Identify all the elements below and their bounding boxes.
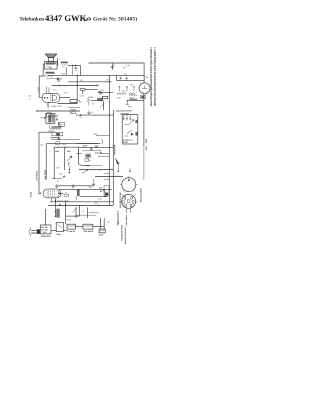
svg-text:ωω: ωω — [52, 114, 56, 117]
svg-text:Netz 50∼: Netz 50∼ — [42, 235, 52, 238]
switch with arrow — [113, 145, 131, 172]
svg-text:±12±0,5mA 6,3V∼: ±12±0,5mA 6,3V∼ — [116, 110, 134, 113]
vertical bus x77 — [76, 75, 78, 103]
node — [59, 85, 60, 86]
switch contacts — [78, 100, 81, 103]
vertical wire x46 — [45, 143, 47, 179]
resistor (zigzag) — [87, 97, 89, 106]
box with Rat/Wd labels — [54, 146, 82, 179]
tube (rectifier oval) — [41, 189, 61, 202]
switch block — [104, 186, 109, 196]
trimmer cap — [59, 78, 61, 82]
wire — [51, 136, 60, 138]
svg-text:ΛΛ: ΛΛ — [62, 65, 65, 68]
svg-text:4.: 4. — [83, 210, 85, 213]
svg-text:0,1: 0,1 — [92, 103, 96, 106]
switch — [82, 170, 88, 173]
voltage selector — [40, 209, 51, 238]
wire — [37, 110, 81, 112]
wire — [95, 176, 123, 178]
trimmer — [71, 110, 76, 114]
svg-text:0,5A: 0,5A — [67, 218, 72, 221]
svg-text:MW: MW — [145, 138, 148, 143]
svg-text:bei UKW: bei UKW — [44, 169, 47, 179]
svg-text:50: 50 — [60, 172, 63, 175]
svg-text:Fassungsbild: Fassungsbild — [139, 188, 142, 203]
IF transformer I box — [117, 73, 145, 81]
loudspeaker LS — [45, 54, 57, 61]
core arrows — [120, 86, 135, 92]
vertical text column right (tube complement) — [151, 47, 155, 106]
left tuner block — [41, 113, 59, 123]
svg-text:1M: 1M — [130, 83, 133, 86]
primary winding 7000 ohm — [46, 72, 58, 80]
wire bus 2 — [48, 74, 117, 76]
svg-text:Wd.: Wd. — [67, 150, 71, 153]
heater winding — [99, 218, 106, 237]
resistor hatched vertical — [56, 209, 60, 218]
switch diag — [73, 208, 78, 213]
3000 coil — [129, 95, 137, 100]
wire — [54, 198, 56, 217]
tube circle top right — [139, 81, 150, 101]
svg-text:100 200V: 100 200V — [120, 112, 130, 115]
svg-text:460: 460 — [117, 97, 121, 100]
capacitor drop — [74, 65, 77, 68]
wire hook — [49, 124, 51, 129]
label bei UKW (left) — [29, 169, 47, 197]
svg-text:1,5k: 1,5k — [95, 151, 100, 154]
svg-text:Cₚ: Cₚ — [101, 89, 104, 92]
svg-text:30: 30 — [122, 90, 125, 93]
resistor R — [98, 98, 103, 100]
svg-text:0,1: 0,1 — [107, 221, 111, 224]
cap Ck — [111, 64, 113, 70]
svg-text:10n: 10n — [89, 186, 93, 189]
node A — [75, 65, 76, 66]
socket circle 1 — [120, 176, 137, 192]
svg-text:0,3: 0,3 — [54, 89, 58, 92]
IF coil humps — [117, 93, 135, 95]
label block above switch box — [116, 110, 134, 116]
svg-text:KW: KW — [145, 145, 148, 150]
svg-text:AZ11: AZ11 — [29, 191, 32, 197]
svg-text:Prim.W.: Prim.W. — [68, 230, 76, 233]
svg-text:4347 GWK: 4347 GWK — [45, 13, 87, 23]
wire — [76, 114, 113, 116]
title — [19, 13, 137, 23]
lambda symbol + notes — [118, 221, 127, 245]
svg-text:B: B — [128, 64, 130, 67]
output transformer — [44, 62, 57, 71]
svg-text:10: 10 — [91, 111, 94, 114]
wire — [80, 146, 113, 148]
components cluster — [79, 147, 103, 166]
svg-text:Ersatzteil-Liste: Ersatzteil-Liste — [121, 224, 124, 240]
svg-text:0,05μF 25V: 0,05μF 25V — [51, 105, 62, 108]
svg-text:7000Ω: 7000Ω — [46, 74, 53, 77]
vertical bus x113 — [112, 110, 114, 206]
vertical bus x109 — [108, 75, 110, 205]
resistor box — [47, 113, 52, 117]
svg-text:2M: 2M — [57, 167, 60, 170]
svg-text:0,3: 0,3 — [96, 84, 100, 87]
vertical bus x144 — [143, 101, 145, 146]
wire — [65, 67, 67, 75]
svg-text:a1: a1 — [57, 179, 60, 182]
svg-text:6,3V~: 6,3V~ — [99, 234, 105, 237]
AVC arrows — [98, 91, 101, 93]
coil 20 box — [59, 123, 65, 127]
svg-text:2: 2 — [29, 97, 31, 100]
svg-text:Cₐ: Cₐ — [80, 116, 83, 119]
switch — [101, 104, 105, 108]
svg-text:6,3: 6,3 — [28, 95, 32, 98]
svg-text:30: 30 — [41, 143, 44, 146]
wire arrow — [91, 100, 102, 102]
svg-text:1M: 1M — [65, 192, 68, 195]
svg-text:Rat: Rat — [55, 150, 59, 153]
wire bus 4 — [52, 85, 98, 87]
svg-text:5: 5 — [114, 64, 116, 67]
svg-text:Bestell-Nummer: Bestell-Nummer — [124, 227, 127, 244]
svg-text:6,3V: 6,3V — [80, 94, 85, 97]
big box left — [39, 131, 56, 133]
switch group mid — [52, 132, 61, 144]
mains plug — [29, 227, 40, 236]
caps above rectifier — [55, 184, 58, 188]
wire — [51, 139, 80, 141]
svg-text:2x6,3V 0,2A Sk.: 2x6,3V 0,2A Sk. — [119, 192, 122, 208]
vertical text near sockets — [117, 188, 143, 226]
svg-text:170: 170 — [98, 198, 102, 201]
wire — [128, 100, 144, 102]
svg-text:Röhren: ECH11 EBF11 EL11 AZ11: Röhren: ECH11 EBF11 EL11 AZ11 Stand 1941 — [154, 50, 157, 106]
svg-text:bei UKW: bei UKW — [36, 170, 39, 180]
svg-text:250V: 250V — [62, 73, 67, 76]
arrow black — [57, 137, 60, 139]
wire bus 3 — [68, 81, 112, 83]
switch arm lower left — [62, 175, 66, 178]
capacitor — [88, 110, 91, 115]
svg-text:25: 25 — [80, 79, 83, 82]
arrow triangle — [58, 122, 60, 124]
field coil / tweeter — [61, 62, 68, 68]
svg-text:5n: 5n — [60, 77, 63, 80]
label pins — [28, 95, 32, 101]
tube EL11 (stadium) — [39, 87, 77, 104]
svg-text:7: 7 — [100, 170, 102, 173]
resistor — [103, 96, 108, 99]
svg-text:0,1μF: 0,1μF — [37, 86, 40, 92]
wires under rectifier — [59, 192, 63, 194]
mains switch box — [51, 222, 67, 236]
hatched resistor block left — [77, 189, 80, 196]
svg-text:Telefunken: Telefunken — [19, 17, 44, 23]
capacitor 0.1uF line — [39, 76, 45, 97]
svg-text:Cₖ: Cₖ — [123, 67, 126, 70]
svg-text:Sich.: Sich. — [56, 233, 61, 236]
svg-text:von unten: von unten — [125, 215, 128, 226]
dial lamp — [80, 88, 113, 93]
svg-text:60: 60 — [145, 75, 148, 78]
value labels scatter — [41, 64, 134, 224]
primary winding boxes — [67, 224, 104, 233]
bandfilter coil — [48, 126, 61, 132]
capacitor 5000 — [90, 147, 93, 150]
resistor Rk — [47, 102, 49, 108]
switch box right mid — [122, 115, 138, 144]
svg-text:Sek.Wickl.: Sek.Wickl. — [84, 230, 95, 233]
wire coil out — [68, 65, 81, 75]
svg-text:240V: 240V — [43, 231, 48, 234]
svg-text:(ab Gerät Nr. 501405): (ab Gerät Nr. 501405) — [84, 16, 138, 22]
resistor Regelw — [70, 100, 77, 103]
svg-text:2W: 2W — [94, 202, 98, 205]
svg-text:Regelbereich: Regelbereich — [46, 77, 57, 80]
svg-text:8μF: 8μF — [99, 186, 103, 189]
svg-text:50k: 50k — [90, 96, 94, 99]
wire — [43, 64, 44, 75]
wire — [47, 142, 100, 144]
switch box — [52, 132, 63, 136]
socket circle 2 (pin view) — [120, 194, 138, 213]
svg-text:⌊: ⌊ — [118, 221, 120, 225]
lower-left box — [76, 207, 99, 218]
wire — [79, 169, 113, 171]
svg-text:7Ω: 7Ω — [49, 67, 52, 70]
wire top bus — [89, 63, 145, 78]
svg-text:m 2: m 2 — [64, 92, 69, 95]
svg-text:Spannungen gemessen bei 220V~: Spannungen gemessen bei 220V~ geg. Chass… — [150, 48, 153, 106]
coupling capacitor top — [57, 77, 59, 82]
